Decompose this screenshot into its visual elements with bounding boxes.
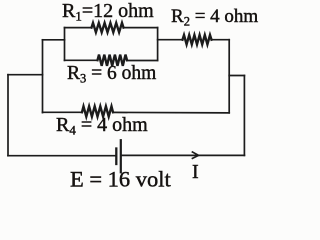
wire bottom right bbox=[122, 154, 245, 156]
wire left tap horizontal bbox=[43, 39, 65, 41]
wire parallel-box left vertical bbox=[64, 28, 66, 61]
wire R2 branch right lead bbox=[212, 39, 230, 41]
resistor R1 bbox=[92, 23, 124, 32]
battery E short plate bbox=[115, 149, 117, 165]
battery E long plate bbox=[120, 140, 122, 172]
svg-text:E = 16 volt: E = 16 volt bbox=[70, 167, 172, 192]
wire R4 branch right lead bbox=[113, 111, 229, 114]
current arrow I bbox=[192, 152, 198, 158]
wire bottom left bbox=[8, 155, 115, 157]
wire R3 branch right lead bbox=[127, 60, 158, 62]
wire left outer vertical bbox=[7, 75, 9, 156]
wire parallel-box right vertical bbox=[157, 28, 159, 61]
wire R4 branch left lead bbox=[43, 111, 83, 113]
wire right inner vertical bbox=[228, 40, 230, 113]
svg-text:I: I bbox=[192, 161, 199, 183]
resistor R3 bbox=[98, 55, 128, 66]
wire R3 branch left lead bbox=[65, 59, 98, 61]
wire R2 branch left lead bbox=[158, 39, 183, 41]
wire left tap vertical bbox=[42, 40, 44, 113]
wire R1 branch left lead bbox=[65, 27, 92, 29]
wire jog horizontal bbox=[229, 75, 244, 77]
resistor R2 bbox=[183, 35, 212, 44]
wire R1 branch right lead bbox=[124, 27, 158, 29]
wire left mid horizontal bbox=[8, 74, 43, 76]
wire right outer vertical bbox=[243, 76, 245, 156]
resistor R4 bbox=[82, 106, 113, 116]
